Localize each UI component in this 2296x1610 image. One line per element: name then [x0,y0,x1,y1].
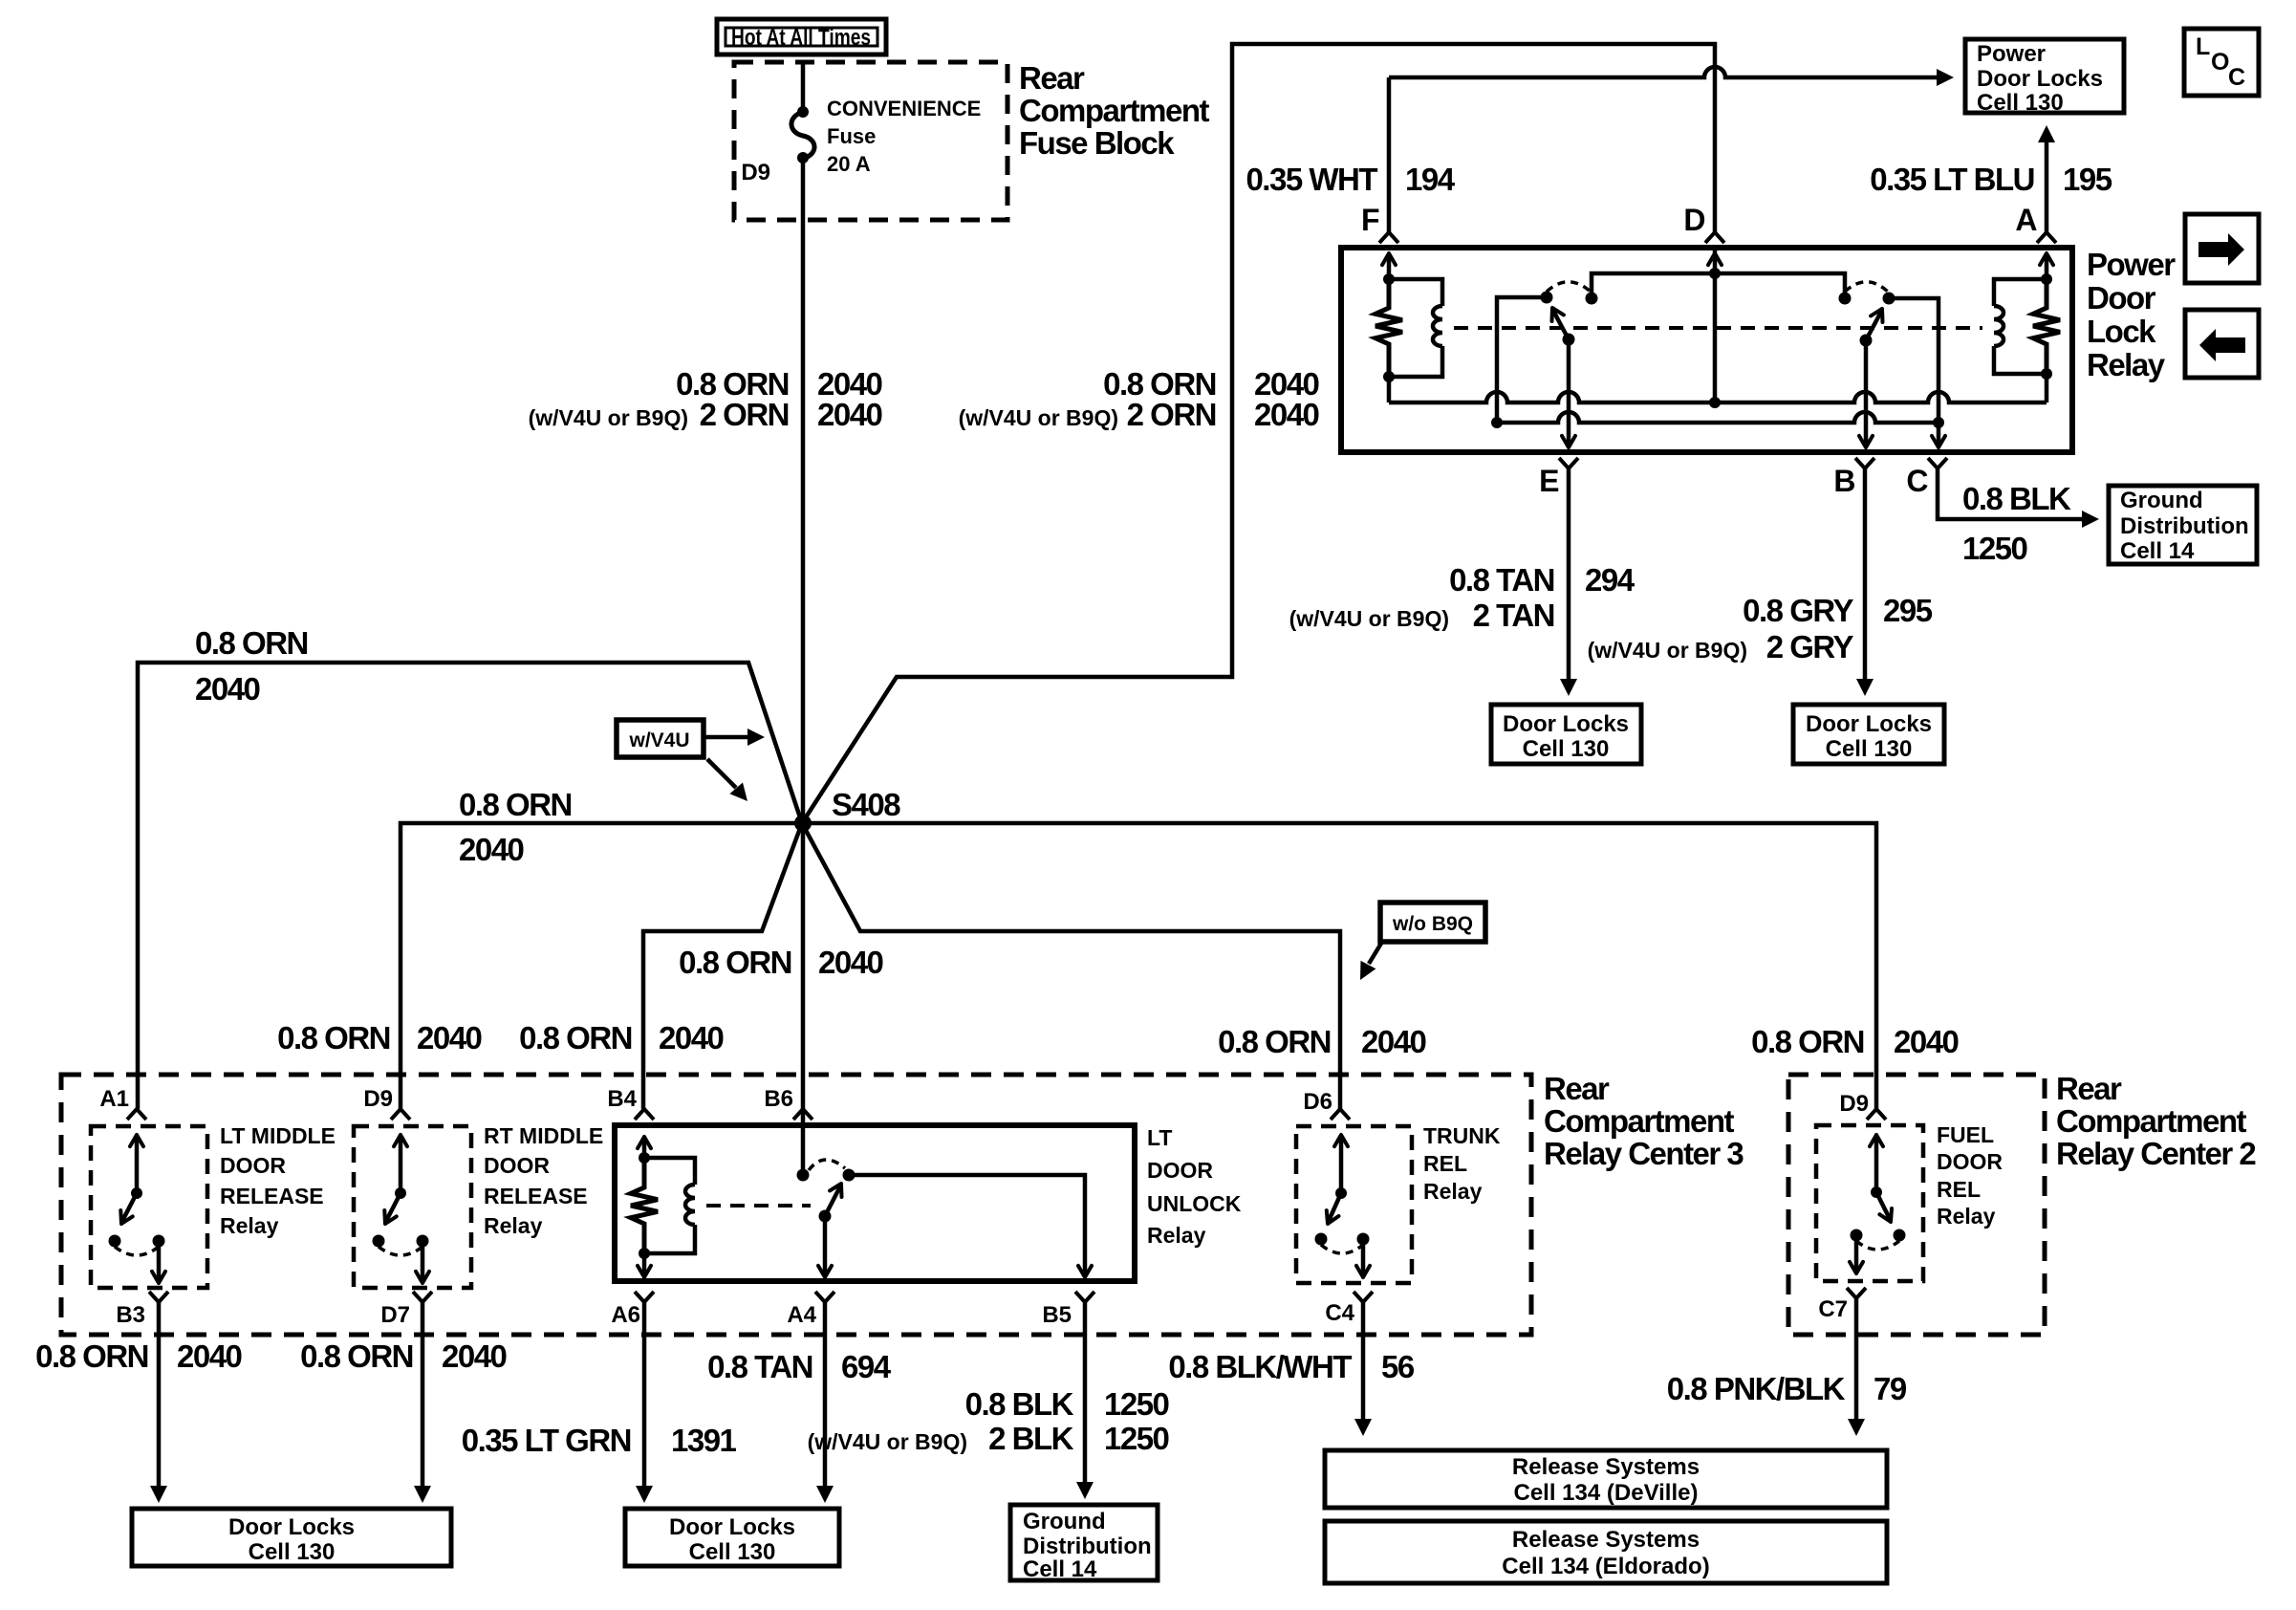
svg-text:294: 294 [1585,562,1635,598]
relay K3 coil windings [685,1185,695,1225]
svg-text:Cell 134 (Eldorado): Cell 134 (Eldorado) [1502,1554,1709,1579]
cell box Door Locks Cell 130 (pin E) [1491,705,1641,764]
connector chevron pin C4 [1354,1292,1373,1302]
connector chevron pin B [1855,458,1874,468]
relay K2 RT MIDDLE DOOR RELEASE dashed outline [354,1126,471,1288]
connector chevron pin D6 [1331,1109,1350,1120]
svg-text:DOOR: DOOR [220,1153,286,1178]
svg-text:2040: 2040 [195,671,260,707]
option tag box w/V4U [617,720,704,757]
svg-text:C7: C7 [1818,1296,1848,1322]
relay resistor R1 (parallel) [1375,279,1402,377]
wire relay pin F to Power Door Locks cell (0.35 WHT 194) [1389,67,1937,77]
svg-text:0.8 ORN: 0.8 ORN [459,787,572,822]
svg-text:Ground: Ground [2120,488,2203,513]
switch K4 throw arc [1321,1245,1363,1253]
svg-text:D7: D7 [380,1302,410,1328]
switch K4 contact left [1315,1233,1328,1246]
wire pin C4 to Release Systems (0.8 BLK/WHT 56) [1361,1302,1366,1419]
svg-text:Distribution: Distribution [1023,1534,1152,1559]
svg-text:Relay Center 3: Relay Center 3 [1544,1136,1744,1171]
svg-text:LT: LT [1147,1125,1172,1150]
svg-text:C4: C4 [1325,1300,1354,1326]
relay U1 Power Door Lock Relay outline [1341,248,2072,452]
switch SW2 fixed contact left [1839,293,1852,305]
rear compartment fuse block dashed outline [734,62,1007,220]
relay K4 input arrow [1339,1138,1344,1193]
svg-text:1391: 1391 [671,1423,737,1458]
option tag arrow 1 (w/V4U) [704,735,747,740]
cell box Release Systems Cell 134 DeVille [1325,1450,1887,1508]
svg-text:B4: B4 [607,1086,637,1112]
switch K5 pivot [1871,1186,1882,1198]
svg-text:20 A: 20 A [827,152,871,176]
cell box Door Locks Cell 130 (bottom middle) [625,1509,839,1566]
option tag box w/o B9Q [1380,903,1485,942]
switch K4 pivot [1335,1187,1347,1199]
svg-text:295: 295 [1883,593,1933,628]
svg-text:0.8 PNK/BLK: 0.8 PNK/BLK [1667,1371,1846,1406]
svg-text:Cell 130: Cell 130 [689,1539,776,1565]
svg-text:Relay Center 2: Relay Center 2 [2056,1136,2256,1171]
svg-text:(w/V4U or B9Q): (w/V4U or B9Q) [529,405,688,430]
wire pin D7 to Door Locks cell (0.8 ORN 2040) [421,1302,425,1486]
svg-text:CONVENIENCE: CONVENIENCE [827,97,981,120]
svg-text:L: L [2196,33,2210,60]
svg-text:TRUNK: TRUNK [1423,1123,1501,1148]
svg-text:Relay: Relay [1147,1223,1206,1248]
svg-text:B: B [1833,464,1854,498]
svg-text:0.8 TAN: 0.8 TAN [1449,562,1554,598]
wire pin B down to Door Locks cell (0.8 GRY 295) [1863,468,1868,679]
svg-text:Cell 14: Cell 14 [2120,538,2195,564]
svg-text:O: O [2211,49,2229,76]
svg-text:w/o B9Q: w/o B9Q [1392,913,1473,935]
svg-text:Cell 14: Cell 14 [1023,1556,1097,1582]
connector chevron pin B6 [793,1109,812,1120]
svg-text:Cell 130: Cell 130 [249,1539,336,1565]
connector chevron pin A4 [815,1292,834,1302]
svg-text:D: D [1683,203,1704,237]
svg-text:195: 195 [2063,162,2112,197]
wire relay pin A up to Power Door Locks cell (0.35 LT BLU 195) [2045,141,2049,232]
wire S408 down to LT DOOR UNLOCK relay pin B6 (0.8 ORN 2040) [801,823,806,1109]
svg-text:Ground: Ground [1023,1509,1106,1534]
connector chevron pin D7 [413,1292,432,1302]
connector chevron pin D9 (RT relay) [391,1109,410,1120]
wire pin B6 into relay K3 [801,1109,806,1169]
wire K3 contact to pin B5 [849,1175,1085,1275]
wire S408 to LT DOOR UNLOCK relay pin B4 (0.8 ORN 2040) [643,823,802,1109]
svg-text:A4: A4 [787,1302,816,1328]
svg-text:0.8 BLK/WHT: 0.8 BLK/WHT [1168,1349,1352,1384]
relay K3 resistor (parallel) [631,1158,658,1253]
switch SW2 throw arc [1845,282,1889,293]
svg-text:Compartment: Compartment [1544,1103,1735,1139]
svg-text:Door: Door [2087,280,2156,315]
svg-text:Door Locks: Door Locks [1503,711,1629,737]
svg-text:Compartment: Compartment [1019,93,1210,128]
switch SW2 blade [1866,312,1881,340]
relay K4 TRUNK REL dashed outline [1296,1126,1412,1283]
svg-text:D9: D9 [1839,1091,1869,1117]
relay pin A internal arrow [2045,256,2049,279]
svg-text:79: 79 [1874,1371,1907,1406]
wire pin B3 to Door Locks cell (0.8 ORN 2040) [157,1302,162,1486]
svg-text:0.8 BLK: 0.8 BLK [965,1386,1074,1422]
switch K3 blade [825,1186,840,1216]
wire pin B5 to Ground Distribution (0.8 BLK 1250) [1083,1302,1088,1482]
svg-text:(w/V4U or B9Q): (w/V4U or B9Q) [808,1429,967,1454]
switch K1 blade [122,1193,137,1221]
svg-text:Cell 130: Cell 130 [1977,90,2064,116]
svg-text:0.8 ORN: 0.8 ORN [277,1020,390,1055]
connector chevron pin A1 [127,1109,146,1120]
connector chevron pin F [1379,232,1398,243]
dashed outline Rear Compartment Relay Center 3 [61,1075,1531,1335]
svg-text:2040: 2040 [659,1020,724,1055]
svg-text:0.8 GRY: 0.8 GRY [1743,593,1853,628]
option tag arrow 2 (w/V4U) [707,759,736,788]
svg-text:0.35 LT GRN: 0.35 LT GRN [462,1423,631,1458]
cell box Power Door Locks Cell 130 [1965,39,2124,113]
switch K1 contact left [109,1235,121,1248]
svg-text:D9: D9 [363,1086,393,1112]
relay pin F internal arrow [1387,256,1392,279]
svg-text:1250: 1250 [1104,1386,1169,1422]
svg-text:LT MIDDLE: LT MIDDLE [220,1123,336,1148]
switch SW2 fixed contact right [1883,293,1895,305]
svg-text:C: C [2228,64,2245,91]
svg-text:2040: 2040 [1254,397,1319,432]
svg-text:0.8 ORN: 0.8 ORN [300,1338,413,1374]
cell box Door Locks Cell 130 (bottom left) [132,1509,451,1566]
switch K3 throw arc [809,1160,845,1170]
switch K3 contact right [843,1169,856,1182]
svg-text:A1: A1 [99,1086,129,1112]
switch K4 blade [1329,1193,1341,1221]
wire S408 to FUEL DOOR REL relay pin D9 (0.8 ORN 2040) [803,823,1876,1109]
relay coil L1 windings [1433,306,1442,346]
svg-text:694: 694 [841,1349,892,1384]
svg-text:w/V4U: w/V4U [628,729,689,751]
switch K2 contact left [373,1235,385,1248]
svg-text:Lock: Lock [2087,314,2156,349]
switch K1 contact right [153,1235,165,1248]
svg-text:2040: 2040 [459,832,524,867]
option tag arrow (w/o B9Q) [1369,942,1382,964]
relay coil control dashed link [1454,326,1982,330]
svg-text:S408: S408 [832,787,900,822]
svg-text:0.8 ORN: 0.8 ORN [1751,1024,1864,1059]
svg-text:RT MIDDLE: RT MIDDLE [484,1123,603,1148]
junction node bus2 left [1491,417,1503,428]
svg-text:Relay: Relay [1423,1179,1483,1204]
wire from Hot At All Times into fuse [801,62,806,111]
svg-text:Relay: Relay [484,1213,543,1238]
cell box Release Systems Cell 134 Eldorado [1325,1521,1887,1583]
wire K3 pivot down to pin A4 [823,1216,828,1275]
switch K5 contact right [1894,1229,1906,1242]
svg-text:56: 56 [1381,1349,1415,1384]
splice S408 [794,815,812,832]
svg-text:1250: 1250 [1962,531,2027,566]
switch SW1 fixed contact right [1586,293,1598,305]
connector chevron pin D9 (fuel relay) [1867,1109,1886,1120]
svg-text:2040: 2040 [1361,1024,1426,1059]
wire K4 output to pin C4 [1361,1239,1366,1275]
switch K3 contact B6 [797,1169,810,1182]
svg-text:D6: D6 [1303,1089,1332,1115]
svg-text:Relay: Relay [220,1213,279,1238]
relay K2 input arrow [399,1138,403,1193]
wire SW2 pivot down to pin B [1864,340,1869,446]
relay pin D internal wire [1713,248,1718,402]
svg-text:Power: Power [2087,247,2176,282]
junction node A coil top [2041,273,2052,285]
svg-text:DOOR: DOOR [1937,1149,2003,1174]
junction node F coil bottom [1383,371,1395,382]
relay internal bus line 1 [1389,392,2047,402]
svg-text:UNLOCK: UNLOCK [1147,1191,1242,1216]
wire coil bottom to bus1 [1387,377,1392,402]
wire pin C to Ground Distribution (0.8 BLK 1250) [1938,468,2082,519]
svg-text:Door Locks: Door Locks [1977,66,2103,92]
junction node F coil top [1383,273,1395,285]
svg-text:194: 194 [1405,162,1456,197]
relay K3 LT DOOR UNLOCK outline [615,1125,1135,1281]
wire pin A6 to Door Locks cell (0.35 LT GRN 1391) [642,1302,647,1486]
svg-text:2040: 2040 [817,397,882,432]
svg-text:0.8 BLK: 0.8 BLK [1962,481,2071,516]
connector chevron pin A [2037,232,2056,243]
switch SW1 fixed contact left [1541,292,1553,304]
connector chevron pin A6 [635,1292,654,1302]
relay K1 input arrow [135,1138,140,1193]
wire K3 coil bottom to pin A6 [642,1253,647,1275]
switch K5 blade [1876,1192,1890,1219]
svg-text:Release Systems: Release Systems [1512,1527,1700,1553]
relay coil L2 windings [1994,306,2004,346]
svg-text:DOOR: DOOR [484,1153,550,1178]
svg-text:1250: 1250 [1104,1421,1169,1456]
dashed outline Rear Compartment Relay Center 2 [1788,1075,2045,1335]
switch K1 pivot [131,1187,142,1199]
svg-text:Hot At All Times: Hot At All Times [731,25,871,51]
junction node bus2 right [1933,417,1944,428]
connector chevron pin B3 [149,1292,168,1302]
svg-text:0.8 TAN: 0.8 TAN [707,1349,812,1384]
switch SW1 blade [1553,311,1569,339]
svg-text:DOOR: DOOR [1147,1158,1213,1183]
svg-text:0.8 ORN: 0.8 ORN [519,1020,632,1055]
switch K4 contact right [1357,1233,1370,1246]
svg-text:Rear: Rear [1544,1071,1610,1106]
svg-text:2 TAN: 2 TAN [1473,598,1554,633]
svg-text:2040: 2040 [442,1338,507,1374]
junction node A coil bottom [2041,368,2052,380]
junction node K3 coil bottom [639,1248,650,1259]
svg-text:(w/V4U or B9Q): (w/V4U or B9Q) [1588,638,1747,663]
cell box Ground Distribution Cell 14 (bottom) [1010,1505,1158,1580]
svg-text:F: F [1361,203,1379,237]
connector chevron pin C [1928,458,1947,468]
svg-text:Fuse Block: Fuse Block [1019,125,1175,161]
wire S408 to RT MIDDLE DOOR RELEASE relay pin D9 (0.8 ORN 2040) [401,823,802,1109]
svg-text:Power: Power [1977,41,2046,67]
wire pin C7 to Release Systems (0.8 PNK/BLK 79) [1854,1298,1859,1419]
svg-text:Cell 130: Cell 130 [1826,736,1913,762]
wire S408 to LT MIDDLE DOOR RELEASE relay pin A1 (0.8 ORN 2040) [138,663,802,1109]
relay coil L2 (unlock) branch [1994,279,2047,374]
relay K5 FUEL DOOR REL dashed outline [1816,1125,1923,1281]
svg-text:Rear: Rear [2056,1071,2122,1106]
svg-text:Door Locks: Door Locks [669,1514,795,1540]
svg-text:REL: REL [1423,1151,1467,1176]
svg-text:(w/V4U or B9Q): (w/V4U or B9Q) [1289,606,1449,631]
svg-text:REL: REL [1937,1177,1981,1202]
legend box LOC [2184,29,2259,96]
svg-text:2 BLK: 2 BLK [988,1421,1074,1456]
svg-text:0.35 LT BLU: 0.35 LT BLU [1870,162,2034,197]
svg-text:0.8 ORN: 0.8 ORN [35,1338,148,1374]
svg-text:2 ORN: 2 ORN [700,397,789,432]
junction node D crossbar [1709,268,1721,279]
junction node D on bus1 [1709,397,1721,408]
wire bus2 right down to pin C [1937,423,1941,446]
svg-text:C: C [1906,464,1928,498]
svg-text:2040: 2040 [177,1338,242,1374]
svg-text:E: E [1539,464,1559,498]
relay coil L1 (lock) branch [1389,279,1442,377]
cell box Ground Distribution Cell 14 (top) [2109,486,2257,564]
svg-text:Cell 134 (DeVille): Cell 134 (DeVille) [1514,1480,1699,1506]
svg-text:0.8 ORN: 0.8 ORN [195,625,308,661]
svg-text:2040: 2040 [417,1020,482,1055]
svg-text:RELEASE: RELEASE [220,1184,324,1208]
svg-text:Relay: Relay [1937,1204,1996,1229]
svg-text:Door Locks: Door Locks [228,1514,355,1540]
svg-text:2040: 2040 [818,945,883,980]
legend box unlock arrow (left) [2185,310,2259,378]
relay resistor R2 (parallel) [2033,279,2060,374]
switch K2 blade [386,1193,401,1221]
connector chevron pin E [1559,458,1578,468]
svg-text:FUEL: FUEL [1937,1122,1994,1147]
switch SW1 throw arc [1547,282,1592,293]
connector chevron pin B4 [635,1109,654,1120]
svg-text:(w/V4U or B9Q): (w/V4U or B9Q) [959,405,1118,430]
relay internal bus line 2 [1497,412,1939,423]
switch K2 throw arc [379,1247,422,1255]
svg-text:Rear: Rear [1019,60,1085,96]
svg-text:Door Locks: Door Locks [1806,711,1932,737]
svg-text:Fuse: Fuse [827,124,876,148]
switch K1 throw arc [115,1247,159,1255]
cell box Door Locks Cell 130 (pin B) [1793,705,1944,764]
wire S408 to TRUNK REL relay pin D6 (0.8 ORN 2040) [802,823,1340,1109]
junction node K3 coil top [639,1152,650,1164]
relay K3 control dashed link [706,1204,811,1207]
svg-text:2 ORN: 2 ORN [1127,397,1216,432]
wire fuse output down to splice S408 (0.8 ORN 2040) [801,158,806,823]
svg-text:A6: A6 [611,1302,640,1328]
relay K3 coil branch [644,1158,695,1253]
wire relay pin D up-over-down to S408 [802,44,1715,823]
svg-text:Compartment: Compartment [2056,1103,2247,1139]
relay K1 LT MIDDLE DOOR RELEASE dashed outline [91,1126,207,1288]
switch K5 throw arc [1856,1241,1899,1250]
switch K2 contact right [417,1235,429,1248]
wire pin E down to Door Locks cell (0.8 TAN 294) [1567,468,1571,679]
svg-text:2040: 2040 [1894,1024,1959,1059]
wire SW1 pivot down to pin E [1567,339,1571,446]
svg-text:Release Systems: Release Systems [1512,1454,1700,1480]
svg-text:0.35 WHT: 0.35 WHT [1245,162,1377,197]
svg-text:Distribution: Distribution [2120,513,2249,539]
relay K3 input arrow (B4) [642,1140,647,1158]
power feed label box 'Hot At All Times' [717,19,886,54]
fuse F1 CONVENIENCE 20A [797,106,809,118]
svg-text:B3: B3 [116,1302,145,1328]
wire K2 output to pin D7 [421,1241,425,1281]
legend box lock arrow (right) [2185,214,2259,283]
svg-text:RELEASE: RELEASE [484,1184,588,1208]
svg-text:B6: B6 [764,1086,793,1112]
switch K2 pivot [395,1187,406,1199]
svg-text:Cell 130: Cell 130 [1523,736,1610,762]
switch K5 contact left [1851,1229,1863,1242]
svg-text:B5: B5 [1042,1302,1072,1328]
wire K5 output to pin C7 [1854,1235,1859,1272]
svg-text:D9: D9 [741,160,770,185]
relay K5 input arrow [1874,1138,1879,1192]
svg-text:0.8 ORN: 0.8 ORN [1218,1024,1331,1059]
wire K1 output to pin B3 [157,1241,162,1281]
connector chevron pin C7 [1847,1288,1866,1298]
svg-text:2 GRY: 2 GRY [1766,629,1854,664]
svg-text:A: A [2015,203,2037,237]
connector chevron pin D [1705,232,1724,243]
connector chevron pin B5 [1075,1292,1094,1302]
wire pin A4 to Door Locks cell (0.8 TAN 694) [823,1302,828,1486]
svg-text:Relay: Relay [2087,347,2166,382]
svg-text:0.8 ORN: 0.8 ORN [679,945,791,980]
